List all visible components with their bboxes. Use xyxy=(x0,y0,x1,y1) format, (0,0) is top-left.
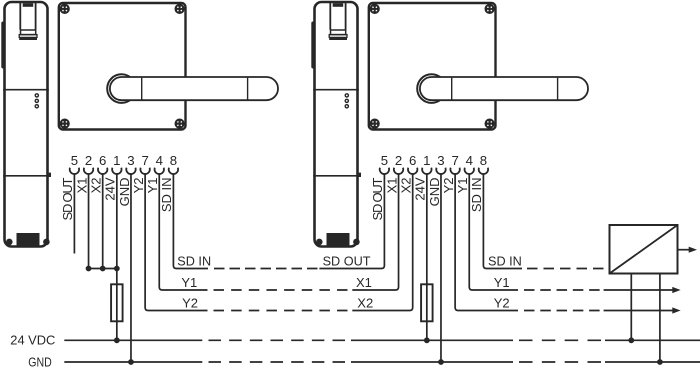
module 2 top connector clip xyxy=(329,3,347,41)
fuse F2 xyxy=(421,284,433,321)
svg-text:5: 5 xyxy=(381,153,388,168)
junction dot unit2 GND xyxy=(438,359,444,365)
module 1 side tab xyxy=(1,22,4,69)
bus 24 VDC solid segment right xyxy=(605,339,700,341)
module 1 upper divider line xyxy=(3,89,49,91)
wire unit1 24V (pin 1) down through fuse to 24VDC bus xyxy=(116,173,118,340)
module 1 lower divider line xyxy=(3,173,51,177)
module 1 LED indicators xyxy=(35,93,40,109)
unit 2 terminal labels SD OUT X1 X2 24V GND Y2 Y1 SD IN xyxy=(370,177,484,220)
dashed bus segment Y1 right xyxy=(524,289,600,291)
junction dot F1 to 24VDC bus xyxy=(114,337,120,343)
unit 2 terminal numbers 5 2 6 1 3 7 4 8 xyxy=(381,153,487,168)
converter U1 output arrow xyxy=(678,247,698,253)
svg-text:Y2: Y2 xyxy=(182,296,198,311)
svg-text:Y1: Y1 xyxy=(145,178,160,194)
svg-text:24V: 24V xyxy=(413,177,428,200)
wire unit1 SD IN (pin 8) corner to row 1 xyxy=(173,173,208,268)
svg-text:X2: X2 xyxy=(398,178,413,194)
svg-text:SD IN: SD IN xyxy=(177,254,211,269)
svg-text:SD IN: SD IN xyxy=(469,178,484,213)
wire unit1 SD OUT (pin 5) stub xyxy=(73,173,75,253)
svg-text:6: 6 xyxy=(99,153,106,168)
converter U1 diagonal xyxy=(610,225,678,274)
svg-text:1: 1 xyxy=(113,153,120,168)
wire Y2 output with arrow xyxy=(604,307,681,313)
valve 1 handle hub xyxy=(107,74,136,103)
junction dot converter 24 VDC xyxy=(628,337,634,343)
valve 2 top-right screw xyxy=(485,4,495,14)
bus 24 VDC solid segment under unit1 xyxy=(64,339,202,341)
unit 1 terminal labels SD OUT X1 X2 24V GND Y2 Y1 SD IN xyxy=(60,177,174,220)
wire converter to 24 VDC bus xyxy=(630,274,632,341)
junction dot X1 unit1 xyxy=(86,266,92,272)
valve 2 bottom-right screw xyxy=(485,119,495,129)
dashed bus segment Y2 right xyxy=(524,310,600,312)
unit 1 terminal numbers 5 2 6 1 3 7 4 8 xyxy=(71,153,177,168)
bus GND dashed segment between units xyxy=(209,361,346,363)
junction dot 24V unit1 xyxy=(114,266,120,272)
module 1 feet xyxy=(6,239,50,246)
svg-text:GND: GND xyxy=(427,178,442,207)
svg-text:4: 4 xyxy=(156,153,163,168)
svg-text:GND: GND xyxy=(28,354,52,369)
bus GND solid segment under unit2 xyxy=(351,361,513,363)
svg-text:X2: X2 xyxy=(357,296,373,311)
valve 1 bottom-left screw xyxy=(60,119,70,129)
bus GND solid segment under unit1 xyxy=(64,361,202,363)
valve 2 bottom-left screw xyxy=(370,119,380,129)
bus 24 VDC dashed segment between units xyxy=(209,339,346,341)
bus GND dashed segment to converter xyxy=(519,361,601,363)
svg-text:2: 2 xyxy=(85,153,92,168)
junction dot converter GND xyxy=(657,359,663,365)
bus 24 VDC solid segment under unit2 xyxy=(351,339,513,341)
svg-text:X2: X2 xyxy=(88,178,103,194)
wire unit1 X2 (pin 6) down xyxy=(102,173,104,268)
module 2 bottom terminal block xyxy=(327,233,350,247)
svg-text:Y2: Y2 xyxy=(494,296,510,311)
svg-text:5: 5 xyxy=(71,153,78,168)
svg-text:X1: X1 xyxy=(384,178,399,194)
valve 1 top-left screw xyxy=(60,4,70,14)
svg-text:SD IN: SD IN xyxy=(159,178,174,213)
actuator control module 1 body xyxy=(5,2,48,247)
junction dot F2 to 24VDC bus xyxy=(424,337,430,343)
wire Y1 output with arrow xyxy=(604,287,681,293)
wire unit2 Y1 (pin 4) corner to right xyxy=(469,173,518,290)
svg-text:X1: X1 xyxy=(74,178,89,194)
dashed bus segment Y2 row between units xyxy=(214,310,348,312)
wire unit1 GND (pin 3) down to GND bus xyxy=(130,173,132,362)
module 2 side tab xyxy=(311,22,314,69)
valve 2 handle xyxy=(420,77,588,100)
svg-text:7: 7 xyxy=(141,153,148,168)
valve 1 handle xyxy=(110,77,278,100)
wire unit2 Y2 (pin 7) corner to right xyxy=(455,173,518,310)
wire unit2 X1 (pin 2) corner from row 2 xyxy=(352,173,398,290)
svg-text:X1: X1 xyxy=(356,275,372,290)
unit 1 terminal sockets xyxy=(70,168,178,174)
svg-text:24V: 24V xyxy=(103,177,118,200)
svg-text:3: 3 xyxy=(127,153,134,168)
module 2 lower divider line xyxy=(313,173,361,177)
wire unit2 GND (pin 3) down to GND bus xyxy=(440,173,442,362)
svg-text:8: 8 xyxy=(480,153,487,168)
svg-text:Y2: Y2 xyxy=(131,178,146,194)
valve 1 top-right screw xyxy=(175,4,185,14)
valve body 1 xyxy=(59,3,186,130)
svg-text:Y2: Y2 xyxy=(441,178,456,194)
bus 24 VDC dashed segment to converter xyxy=(519,339,601,341)
svg-text:4: 4 xyxy=(466,153,473,168)
valve 1 handle grip lines xyxy=(142,78,248,100)
actuator control module 2 body xyxy=(315,2,358,247)
wire unit1 X1 (pin 2) down xyxy=(88,173,90,268)
svg-text:1: 1 xyxy=(423,153,430,168)
svg-text:Y1: Y1 xyxy=(181,275,197,290)
svg-text:GND: GND xyxy=(117,178,132,207)
svg-text:24 VDC: 24 VDC xyxy=(10,333,55,348)
wire converter to GND bus xyxy=(659,274,661,363)
wire unit1 Y2 (pin 7) corner to row 3 xyxy=(145,173,207,310)
wire unit1 Y1 (pin 4) corner to row 2 xyxy=(159,173,207,290)
module 2 feet xyxy=(316,239,360,246)
valve 2 handle hub xyxy=(417,74,446,103)
svg-text:8: 8 xyxy=(170,153,177,168)
dashed bus segment Y1 row between units xyxy=(214,289,348,291)
junction dot X2 unit1 xyxy=(100,266,106,272)
fuse F1 xyxy=(111,284,123,321)
wire unit2 SD OUT (pin 5) corner from row 1 xyxy=(319,173,384,268)
module 2 upper divider line xyxy=(313,89,359,91)
module 1 top connector clip xyxy=(19,3,37,41)
valve 1 bottom-right screw xyxy=(175,119,185,129)
svg-text:2: 2 xyxy=(395,153,402,168)
svg-text:Y1: Y1 xyxy=(455,178,470,194)
module 1 bottom terminal block xyxy=(17,233,40,247)
bus GND solid segment right xyxy=(605,361,700,363)
svg-text:7: 7 xyxy=(451,153,458,168)
svg-text:SD OUT: SD OUT xyxy=(323,254,371,269)
dashed bus segment SD IN to converter xyxy=(527,268,604,270)
valve 2 handle grip lines xyxy=(452,78,558,100)
unit 2 terminal sockets xyxy=(380,168,488,174)
dashed bus segment SD row between units xyxy=(214,268,318,270)
svg-text:Y1: Y1 xyxy=(494,275,510,290)
svg-text:6: 6 xyxy=(409,153,416,168)
svg-text:SD OUT: SD OUT xyxy=(370,177,385,220)
module 2 LED indicators xyxy=(345,93,350,109)
junction dot unit1 GND xyxy=(128,359,134,365)
signal converter U1 box xyxy=(610,225,678,274)
wire unit2 24V (pin 1) down through fuse to 24VDC bus xyxy=(426,173,428,340)
wire unit2 X2 (pin 6) corner from row 3 xyxy=(352,173,412,310)
valve body 2 xyxy=(369,3,496,130)
wire junction bar X1-X2-24V unit1 xyxy=(89,268,117,270)
svg-text:SD IN: SD IN xyxy=(488,254,522,269)
wire unit2 SD IN (pin 8) corner to right xyxy=(483,173,522,268)
svg-text:SD OUT: SD OUT xyxy=(60,177,75,220)
svg-text:3: 3 xyxy=(437,153,444,168)
valve 2 top-left screw xyxy=(370,4,380,14)
